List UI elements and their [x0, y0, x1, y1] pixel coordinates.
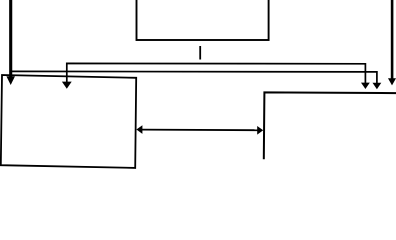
arrowhead at right end of line 2: [373, 83, 382, 89]
arrowhead of right thick arrow: [388, 78, 396, 85]
top box (cut off at top edge): [137, 0, 269, 40]
left arrowhead of double arrow: [136, 125, 142, 134]
wire: bracket line 1 with down-turned ends: [67, 63, 366, 83]
bottom-left box (slightly rotated): [1, 75, 136, 168]
wire: bracket line 2 from thick arrow to right down arrow: [11, 71, 377, 83]
double-headed horizontal arrow between boxes: [142, 129, 259, 132]
bottom-right box (open, extends past right edge): [264, 92, 396, 159]
wire: left thick vertical arrow shaft: [9, 0, 12, 77]
arrowhead at left end of line 1: [62, 82, 72, 89]
arrowhead of left thick arrow: [6, 76, 15, 85]
right arrowhead of double arrow: [257, 126, 263, 135]
wire: right thick vertical arrow shaft: [391, 0, 394, 79]
arrowhead at right end of line 1: [361, 83, 370, 89]
tick connector below top box: [199, 46, 201, 60]
